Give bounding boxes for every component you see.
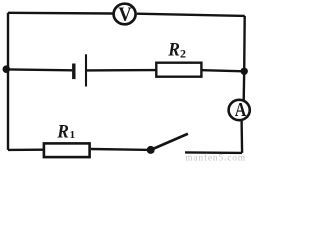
- wire: bottom-middle segment: [91, 148, 151, 151]
- wire: left vertical segment: [7, 13, 9, 150]
- voltmeter V: [114, 4, 136, 26]
- wire: top-left horizontal segment: [8, 12, 113, 15]
- switch S pivot dot: [147, 146, 155, 154]
- battery cell: short thick negative plate: [72, 64, 75, 80]
- svg-text:A: A: [235, 98, 247, 120]
- wire: right vertical upper segment: [244, 16, 245, 100]
- svg-text:V: V: [118, 4, 131, 26]
- switch S lever: [151, 134, 188, 150]
- svg-text:1: 1: [70, 129, 76, 141]
- svg-text:2: 2: [180, 46, 186, 60]
- svg-text:manfen5.com: manfen5.com: [185, 153, 246, 162]
- svg-text:R: R: [56, 121, 69, 142]
- battery cell: long thin positive plate: [85, 54, 87, 86]
- wire: middle-center segment (battery to R2): [87, 69, 157, 72]
- wire: bottom-left horizontal segment: [8, 148, 43, 151]
- ammeter A: [229, 98, 250, 120]
- wire: bottom-right horizontal segment: [185, 151, 242, 154]
- wire: top-right horizontal segment: [137, 14, 245, 16]
- node: left junction dot: [3, 65, 11, 73]
- resistor R2 box: [156, 63, 201, 77]
- node: right junction dot: [241, 68, 248, 75]
- resistor R1 box: [44, 143, 90, 157]
- wire: right vertical lower segment: [240, 121, 243, 153]
- svg-text:R: R: [167, 39, 180, 60]
- wire: middle-left segment (to battery): [8, 68, 72, 71]
- wire: middle-right segment (R2 to right junction): [203, 70, 245, 71]
